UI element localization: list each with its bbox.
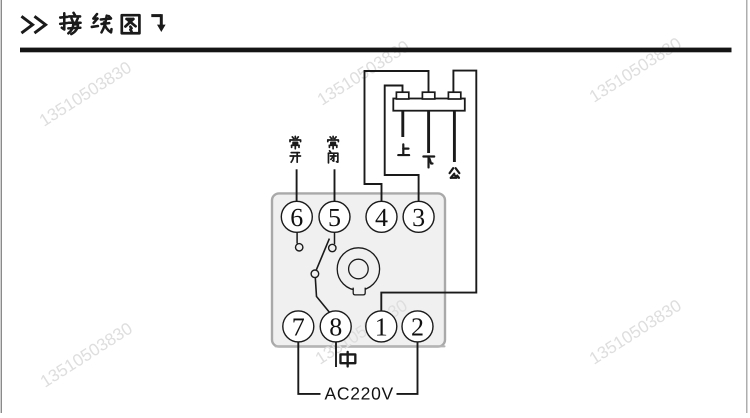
label 上 [398, 144, 409, 155]
pin 5 [319, 201, 350, 232]
pivot to pin 8 link [315, 278, 329, 313]
terminal pin 公 [453, 111, 456, 162]
wire pin1 to terminal 公 [381, 71, 476, 311]
svg-text:4: 4 [375, 203, 388, 232]
NO contact dot [296, 244, 303, 251]
terminal tab 2 [422, 92, 434, 99]
switch arm [316, 239, 329, 271]
leader line for 常闭 to pin 5 [334, 169, 336, 202]
switch pivot dot [311, 270, 319, 278]
relay socket base [272, 193, 445, 346]
wire pin4 to terminal 下 [365, 71, 429, 202]
terminal tab 1 [396, 92, 408, 99]
left page border [1, 0, 2, 413]
watermark texts 13510503830 [35, 33, 684, 391]
svg-text:1: 1 [375, 312, 388, 341]
leader line for 常开 to pin 6 [296, 169, 298, 202]
center boss outer circle [337, 248, 379, 290]
pin 4 [366, 201, 397, 232]
svg-text:6: 6 [290, 203, 303, 232]
title char 线 [92, 14, 112, 32]
label 公 [450, 168, 460, 178]
svg-text:5: 5 [328, 203, 341, 232]
title char 图 [122, 15, 140, 33]
title char 接 [60, 13, 80, 34]
title underline bar [20, 48, 732, 53]
terminal tab 3 [448, 92, 460, 99]
NC contact dot [329, 244, 336, 251]
svg-text:8: 8 [329, 312, 342, 341]
pin 7 [283, 311, 314, 342]
pin 2 [402, 311, 433, 342]
wire pin2 to AC220V [397, 342, 418, 394]
label 常开 [290, 136, 301, 148]
pin 8 [320, 311, 351, 342]
center boss inner circle [349, 259, 369, 279]
wire pin3 to terminal 上 [385, 86, 419, 202]
label 常闭 [328, 136, 339, 148]
wire pin7 to AC220V [298, 342, 320, 394]
stub below pin 5 [334, 232, 336, 244]
center boss keyway notch [353, 286, 365, 295]
stub below pin 6 [296, 232, 298, 243]
wire pin8 stub (中) [335, 342, 337, 367]
title arrow [151, 14, 165, 32]
title chevrons >> [23, 17, 46, 32]
pin 6 [281, 201, 312, 232]
svg-text:7: 7 [292, 312, 305, 341]
terminal block body [393, 99, 465, 111]
label 中 [340, 352, 355, 367]
label 下 [423, 156, 434, 167]
svg-text:2: 2 [411, 312, 424, 341]
pin 3 [403, 201, 434, 232]
svg-text:3: 3 [412, 203, 425, 232]
terminal pin 上 [401, 111, 404, 137]
right page border [746, 0, 747, 413]
svg-text:AC220V: AC220V [325, 383, 394, 403]
pin 1 [366, 311, 397, 342]
terminal pin 下 [427, 111, 430, 153]
